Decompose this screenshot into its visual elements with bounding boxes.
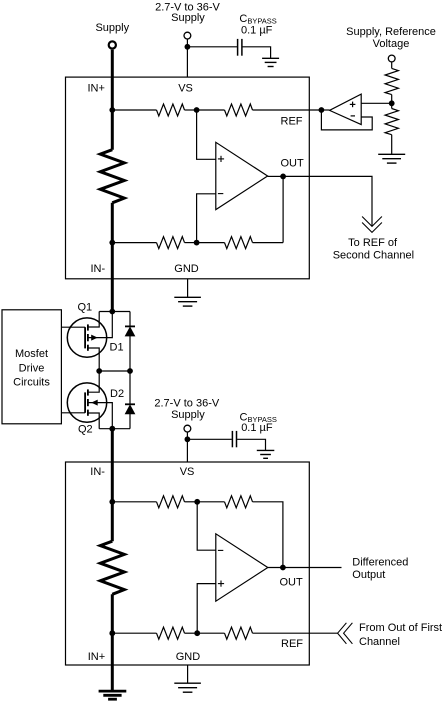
wire R5 to node <box>185 501 198 503</box>
wire GND pin of box 1 <box>187 279 189 298</box>
wire bottom node (Q2 source / D2 anode) <box>99 428 130 430</box>
svg-text:OUT: OUT <box>280 577 304 589</box>
svg-text:REF: REF <box>281 115 303 127</box>
svg-text:Q1: Q1 <box>78 301 93 313</box>
svg-text:IN-: IN- <box>90 466 105 478</box>
op-amp U2 (second channel, points right) <box>216 534 268 601</box>
node plus-input divider (box 1) <box>194 107 200 113</box>
wire minus input of op-amp 2 <box>197 502 216 550</box>
ground (box 1 GND pin) <box>174 296 201 298</box>
wire CBYPASS 2 to ground <box>237 439 265 450</box>
terminal 2.7-V supply (open circle) <box>184 32 191 39</box>
wire middle node (Q1 source / Q2 drain) <box>99 370 130 372</box>
wire GND pin of box 2 <box>187 665 189 683</box>
resistor R8 (box2 bottom right) <box>225 627 253 639</box>
wire buffer feedback loop (minus input to output) <box>321 110 372 130</box>
svg-text:VS: VS <box>178 83 193 95</box>
node plus-input divider (box 2) <box>194 630 200 636</box>
svg-text:IN-: IN- <box>91 263 106 275</box>
capacitor CBYPASS (first channel) 0.1 uF <box>237 39 239 56</box>
diode D2 (lower clamp) <box>129 371 131 404</box>
svg-text:Supply: Supply <box>171 12 205 24</box>
svg-text:Channel: Channel <box>359 636 400 648</box>
svg-text:Differenced: Differenced <box>352 556 408 568</box>
wire buffer output to REF line <box>321 109 329 111</box>
node divider midpoint <box>389 100 395 106</box>
wire shunt 2 bottom to IN+ node and system ground (thick) <box>111 594 114 691</box>
wire plus input of op-amp 2 <box>197 584 216 634</box>
svg-text:From Out of First: From Out of First <box>359 622 442 634</box>
resistor R5 (box2 top left) <box>157 496 185 508</box>
minus symbol U1 <box>218 193 223 195</box>
svg-text:Circuits: Circuits <box>13 377 50 389</box>
svg-text:REF: REF <box>281 638 303 650</box>
op-amp buffer (reference follower, points left) <box>330 94 362 125</box>
svg-text:To REF of: To REF of <box>348 237 398 249</box>
minus symbol U2 <box>218 549 223 551</box>
node REF / buffer output <box>319 107 325 113</box>
svg-text:0.1 µF: 0.1 µF <box>241 25 273 37</box>
wire OUT of box 1 to chevron <box>283 176 372 226</box>
wire R6 to feedback node (box 2) <box>253 502 283 568</box>
wire feedback to bottom divider (box 1) <box>282 176 284 242</box>
diode D1 (upper clamp) <box>129 312 131 327</box>
wire CBYPASS to ground <box>243 47 271 59</box>
wire node to CBYPASS 2 <box>187 438 231 440</box>
svg-text:D1: D1 <box>110 341 124 353</box>
svg-text:Supply, Reference: Supply, Reference <box>346 26 436 38</box>
ground (CBYPASS first channel) <box>262 57 279 59</box>
wire R3 to node <box>185 242 197 244</box>
wire node to R2 <box>197 109 225 111</box>
node IN- junction (box 1) <box>109 240 115 246</box>
svg-text:Second Channel: Second Channel <box>333 249 414 261</box>
node IN- junction (box 2) <box>109 499 115 505</box>
resistor shunt 2 (vertical, between IN- and IN+) <box>100 541 124 594</box>
svg-text:2.7-V to 36-V: 2.7-V to 36-V <box>154 397 219 409</box>
resistor divider top (vertical) <box>385 68 398 94</box>
resistor R6 (box2 top right) <box>225 496 253 508</box>
wire R8 to REF pin and From Out chevron <box>253 632 338 634</box>
svg-text:D2: D2 <box>110 388 124 400</box>
node IN+ junction (box 1) <box>109 107 115 113</box>
wire IN- node to R5 <box>112 501 156 503</box>
wire op-amp 1 output <box>268 175 284 177</box>
wire divider top to node <box>391 95 393 109</box>
capacitor CBYPASS (second channel) 0.1 uF <box>231 431 233 447</box>
node minus-input divider (box 2) <box>194 499 200 505</box>
svg-text:Output: Output <box>352 569 385 581</box>
ground (power, thick) <box>99 690 127 693</box>
wire R1 to node <box>185 109 197 111</box>
svg-text:Voltage: Voltage <box>373 38 410 50</box>
plus symbol U2 <box>218 583 224 585</box>
node junction supply/bypass <box>185 44 191 50</box>
wire shunt 1 bottom to node (112,312) (thick) <box>111 203 114 312</box>
wire terminal to divider top resistor <box>391 62 393 69</box>
ground (box 2 GND pin) <box>174 682 201 684</box>
amplifier block 2 (second channel box) <box>66 462 310 665</box>
wire node to R6 <box>197 501 224 503</box>
wire R4 to feedback node <box>253 242 284 244</box>
svg-text:Supply: Supply <box>95 22 129 34</box>
transistor Q2 (lower MOSFET) <box>67 383 106 422</box>
transistor Q1 (upper MOSFET) <box>67 318 106 357</box>
wire node to CBYPASS <box>187 46 237 48</box>
svg-text:0.1 µF: 0.1 µF <box>241 422 273 434</box>
wire node to R8 <box>197 632 224 634</box>
svg-text:GND: GND <box>174 263 199 275</box>
resistor R1 (box1 top left) <box>157 104 185 116</box>
resistor R2 (box1 top right) <box>225 104 253 116</box>
arrow chevron to REF of second channel (points down) <box>362 217 382 227</box>
wire node to IN- of second channel (thick) <box>111 429 114 542</box>
svg-text:VS: VS <box>180 466 195 478</box>
wire IN+ node to R1 <box>112 109 156 111</box>
wire divider node to buffer + input <box>361 102 392 104</box>
node diode midpoint junction <box>127 368 133 374</box>
minus symbol buffer <box>351 115 355 117</box>
svg-text:Mosfet: Mosfet <box>15 348 48 360</box>
resistor divider bottom (vertical) <box>385 109 398 135</box>
node IN+ junction (box 2) <box>109 630 115 636</box>
plus symbol U1 <box>218 158 224 160</box>
wire plus input of op-amp 1 <box>197 110 216 159</box>
node OUT (box 1) <box>280 174 286 180</box>
wire op-amp 2 output to Differenced Output <box>268 567 342 569</box>
node minus-input divider (box 1) <box>194 240 200 246</box>
wire R2 to REF pin and buffer output node <box>253 109 322 111</box>
terminal Supply (open circle, thick) <box>109 41 116 48</box>
wire node to R4 <box>197 242 225 244</box>
node OUT (box 2) <box>280 565 286 571</box>
svg-text:IN+: IN+ <box>88 82 105 94</box>
wire supply terminal to VS pin of second channel <box>186 432 188 462</box>
wire IN+ node to R7 <box>112 632 156 634</box>
svg-text:IN+: IN+ <box>88 651 105 663</box>
svg-text:OUT: OUT <box>281 158 305 170</box>
terminal reference supply (open circle) <box>388 55 395 62</box>
svg-text:Drive: Drive <box>19 362 45 374</box>
svg-text:Supply: Supply <box>171 409 205 421</box>
svg-text:Q2: Q2 <box>78 423 93 435</box>
resistor shunt 1 (vertical, between IN+ and IN-) <box>100 150 124 203</box>
wire divider bottom to ground <box>391 135 393 155</box>
amplifier block 1 (first channel box) <box>66 77 310 279</box>
plus symbol buffer <box>350 103 356 105</box>
wire IN- node to R3 <box>112 242 156 244</box>
resistor R4 (box1 bottom right) <box>225 237 253 249</box>
node Q1 source junction <box>96 368 102 374</box>
box Mosfet Drive Circuits <box>2 310 61 424</box>
wire R7 to node <box>185 632 198 634</box>
resistor R3 (box1 bottom left) <box>157 237 185 249</box>
ground (CBYPASS second channel) <box>257 449 275 451</box>
arrow chevron from out of first channel (points left) <box>338 623 347 644</box>
ground (reference divider) <box>378 153 405 155</box>
resistor R7 (box2 bottom left) <box>157 627 185 639</box>
wire supply terminal to VS pin of first channel <box>186 39 188 77</box>
terminal 2.7-V supply 2 (open circle) <box>184 425 191 432</box>
node junction supply/bypass 2 <box>185 436 191 442</box>
node drain of Q1 / D1 cathode branch <box>99 311 130 313</box>
wire Supply terminal to IN+ node (thick) <box>111 50 114 150</box>
wire minus input of op-amp 1 <box>197 194 216 243</box>
op-amp U1 (first channel, points right) <box>216 142 268 209</box>
svg-text:GND: GND <box>176 651 201 663</box>
